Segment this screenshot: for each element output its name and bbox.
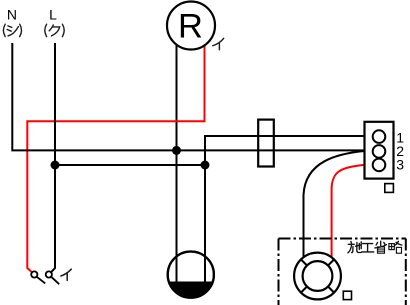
wire: L vertical down to switch (51, 43, 55, 272)
wire: black curve terminal 2 to omitted lamp (304, 151, 365, 257)
wire: vertical x=205 up to y=136 then right to terminal 1 (205, 136, 373, 165)
outlet internal wire left (176, 252, 178, 283)
junction dot C (201, 161, 210, 170)
wire: red lead from R down, left, down to switch (27, 44, 204, 272)
lamp spoke SE (328, 287, 334, 293)
terminal 3 circle (373, 159, 386, 172)
svg-text:N: N (7, 7, 17, 23)
terminal block ロ label square (385, 184, 394, 193)
lamp spoke NE (328, 260, 334, 266)
dash-dot box right edge (405, 239, 407, 305)
svg-text:R: R (178, 8, 203, 46)
pass-through sleeve rectangle (258, 120, 274, 167)
outlet internal wire right (204, 253, 206, 283)
node L (ク) label (45, 24, 64, 36)
lamp receptacle R (イ) (167, 2, 215, 50)
switch blade right (51, 277, 59, 285)
kanji 工 (363, 243, 373, 245)
wire: red curve terminal 3 to omitted lamp (332, 165, 373, 257)
wire: vertical x=205 down to outlet (204, 165, 206, 282)
omitted lamp ロ label square (343, 291, 351, 299)
switch イ contact circle right (46, 271, 52, 277)
outlet (wall receptacle) circle (168, 252, 214, 298)
kanji 施 (350, 241, 353, 243)
label イ for switch (61, 269, 71, 280)
dash-dot construction-omitted box (278, 239, 280, 305)
svg-text:L: L (49, 7, 57, 23)
terminal 2 circle (373, 145, 386, 158)
dash-dot box top edge (279, 238, 406, 240)
wire: N vertical and horizontal to terminal 2 (12, 43, 372, 150)
omitted lamp ロ double circle (294, 253, 341, 300)
node N (シ) label (3, 24, 21, 36)
wire: black lead from R down to outlet, with junction (176, 44, 178, 282)
施工省略 text (drawn strokes) (348, 241, 402, 253)
svg-text:3: 3 (396, 156, 404, 172)
switch イ contact circle left (31, 271, 37, 277)
kanji 省 (380, 241, 382, 245)
kanji 略 (389, 244, 394, 250)
wire: horizontal L branch y=165 (55, 164, 205, 166)
junction dot B (51, 161, 60, 170)
lamp spoke SW (301, 287, 307, 293)
switch blade left (37, 277, 46, 284)
terminal block body (365, 122, 394, 179)
terminal 1 circle (373, 130, 386, 143)
lamp spoke NW (301, 260, 307, 266)
outlet outline re-stroke (168, 252, 214, 298)
junction dot A (172, 146, 181, 155)
outlet filled bottom segment (169, 282, 213, 298)
label イ for R (213, 38, 224, 50)
